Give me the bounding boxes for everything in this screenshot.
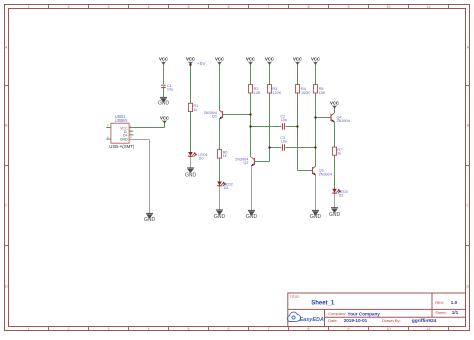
svg-text:6: 6 <box>228 5 230 9</box>
svg-text:1k: 1k <box>193 108 197 112</box>
svg-text:1.0: 1.0 <box>451 300 458 305</box>
svg-text:Your Company: Your Company <box>348 311 381 316</box>
svg-text:2N3904: 2N3904 <box>337 119 350 123</box>
svg-text:D: D <box>5 285 8 289</box>
svg-text:1: 1 <box>28 327 30 331</box>
svg-text:3: 3 <box>108 5 110 9</box>
svg-text:10K: 10K <box>319 91 326 95</box>
svg-text:EasyEDA: EasyEDA <box>300 317 324 323</box>
svg-text:1k: 1k <box>337 152 341 156</box>
svg-text:10u: 10u <box>281 140 287 144</box>
svg-text:D0: D0 <box>199 157 204 161</box>
svg-text:D1: D1 <box>224 186 229 190</box>
svg-text:11: 11 <box>427 5 431 9</box>
svg-text:VCC: VCC <box>330 100 339 105</box>
svg-text:10: 10 <box>387 5 391 9</box>
svg-text:C: C <box>466 204 469 208</box>
svg-text:VCC: VCC <box>265 57 274 62</box>
svg-text:C: C <box>5 204 8 208</box>
svg-text:VCC: VCC <box>160 115 169 120</box>
svg-text:GND: GND <box>144 217 156 223</box>
svg-text:9: 9 <box>348 5 350 9</box>
svg-text:7: 7 <box>268 5 270 9</box>
svg-text:8: 8 <box>308 5 310 9</box>
svg-text:6: 6 <box>228 327 230 331</box>
svg-text:USBIN: USBIN <box>115 118 128 123</box>
svg-text:10u: 10u <box>281 118 287 122</box>
svg-text:120K: 120K <box>272 91 281 95</box>
svg-text:100K: 100K <box>301 91 310 95</box>
svg-text:2: 2 <box>68 327 70 331</box>
svg-text:Company:: Company: <box>328 311 346 316</box>
svg-text:Drawn By:: Drawn By: <box>382 318 400 323</box>
svg-text:8: 8 <box>308 327 310 331</box>
svg-text:GND: GND <box>310 214 322 220</box>
svg-text:+5V: +5V <box>197 61 206 67</box>
svg-text:2N3904: 2N3904 <box>319 172 332 176</box>
svg-text:2: 2 <box>68 5 70 9</box>
svg-text:GND: GND <box>120 138 128 142</box>
svg-text:VCC: VCC <box>159 57 168 62</box>
svg-text:1/1: 1/1 <box>452 310 459 315</box>
svg-text:GND: GND <box>329 212 341 218</box>
svg-text:11: 11 <box>427 327 431 331</box>
svg-text:Q2: Q2 <box>243 161 248 165</box>
svg-text:2019-10-01: 2019-10-01 <box>344 318 368 323</box>
svg-text:Date:: Date: <box>328 318 338 323</box>
svg-text:USB-A(SMT): USB-A(SMT) <box>109 144 135 149</box>
svg-text:10: 10 <box>387 327 391 331</box>
svg-text:7: 7 <box>268 327 270 331</box>
svg-text:GND: GND <box>158 101 170 107</box>
svg-text:GND: GND <box>185 173 197 179</box>
svg-text:VCC: VCC <box>186 57 195 62</box>
svg-text:VCC: VCC <box>246 57 255 62</box>
svg-text:Q1: Q1 <box>212 114 217 118</box>
svg-text:ggriffin924: ggriffin924 <box>412 318 437 324</box>
svg-text:4: 4 <box>148 5 150 9</box>
svg-text:VCC: VCC <box>215 57 224 62</box>
svg-text:4: 4 <box>148 327 150 331</box>
svg-text:3: 3 <box>108 327 110 331</box>
svg-text:10u: 10u <box>167 87 173 91</box>
svg-text:Sheet_1: Sheet_1 <box>311 300 335 306</box>
svg-text:VCC: VCC <box>293 57 302 62</box>
svg-text:5: 5 <box>188 5 190 9</box>
svg-text:9: 9 <box>348 327 350 331</box>
svg-text:D2: D2 <box>339 193 344 197</box>
svg-text:GND: GND <box>214 214 226 220</box>
svg-text:1k: 1k <box>223 154 227 158</box>
svg-text:D: D <box>466 285 469 289</box>
svg-text:5: 5 <box>188 327 190 331</box>
svg-text:10K: 10K <box>254 91 261 95</box>
svg-text:1: 1 <box>28 5 30 9</box>
svg-text:REV:: REV: <box>435 300 444 305</box>
svg-text:Sheet:: Sheet: <box>435 310 447 315</box>
svg-text:TITLE:: TITLE: <box>290 295 300 299</box>
svg-text:VCC: VCC <box>311 57 320 62</box>
svg-text:GND: GND <box>246 214 258 220</box>
